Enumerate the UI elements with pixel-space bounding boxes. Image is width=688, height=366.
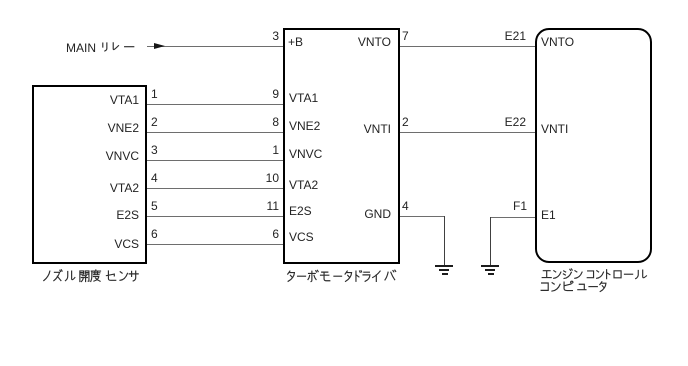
pin 4 number (driver right)	[402, 200, 409, 212]
wire E2S	[147, 216, 283, 217]
left box: nozzle position sensor	[32, 85, 147, 264]
pin 8 number	[249, 116, 279, 128]
label VNE2 (sensor)	[80, 122, 139, 134]
middle box: turbo motor driver	[283, 28, 400, 264]
label VTA1 (sensor)	[80, 94, 139, 106]
pin 6 number	[151, 228, 158, 240]
pin 4 number	[151, 172, 158, 184]
label E1 (ECU)	[541, 209, 556, 221]
label VTA2 (sensor)	[80, 182, 139, 194]
label VNTO (ECU)	[541, 36, 574, 48]
wire VNE2	[147, 132, 283, 133]
pin 6 number (driver)	[249, 228, 279, 240]
wire +B from MAIN relay	[147, 46, 283, 47]
label VNTI (ECU)	[541, 123, 568, 135]
label MAIN relay (MAIN リレー)	[66, 42, 96, 54]
label VNTI (driver)	[330, 123, 391, 135]
pin 11 number	[249, 200, 279, 212]
pin 10 number	[249, 172, 279, 184]
ground symbol 1	[435, 265, 453, 267]
label E2S (sensor)	[80, 209, 139, 221]
pin 5 number	[151, 200, 158, 212]
pin 3 (+B) number	[249, 30, 279, 42]
wire VTA1	[147, 104, 283, 105]
label VCS (sensor)	[80, 238, 139, 250]
pin 1 number	[151, 88, 158, 100]
ground symbol 2	[481, 265, 499, 267]
wire F1 vertical	[490, 217, 491, 265]
label VNVC (sensor)	[80, 150, 139, 162]
wire VNVC	[147, 160, 283, 161]
wire VCS	[147, 244, 283, 245]
label VTA2 (driver)	[289, 179, 318, 191]
label VNTO (driver)	[330, 36, 391, 48]
wire VNTO to E21	[400, 46, 535, 47]
pin 3 number (sensor)	[151, 144, 158, 156]
label GND	[330, 208, 391, 220]
arrowhead on +B wire	[154, 43, 165, 49]
pin 9 number	[249, 88, 279, 100]
wire VNTI to E22	[400, 132, 535, 133]
pin 2 number (driver right)	[402, 116, 409, 128]
wire GND horizontal	[400, 216, 444, 217]
wire GND vertical	[444, 216, 445, 265]
wire VTA2	[147, 188, 283, 189]
right box: engine control computer	[535, 28, 652, 263]
pin E22 label	[486, 116, 526, 128]
label +B	[288, 36, 303, 48]
label VCS (driver)	[289, 231, 314, 243]
pin 7 number	[402, 30, 409, 42]
pin F1 label	[487, 200, 527, 212]
wire F1/E1 horizontal	[490, 217, 535, 218]
pin 1 number (driver)	[249, 144, 279, 156]
label VTA1 (driver)	[289, 92, 318, 104]
label VNVC (driver)	[289, 148, 322, 160]
pin 2 number	[151, 116, 158, 128]
label E2S (driver)	[289, 205, 312, 217]
pin E21 label	[486, 30, 526, 42]
label VNE2 (driver)	[289, 120, 320, 132]
